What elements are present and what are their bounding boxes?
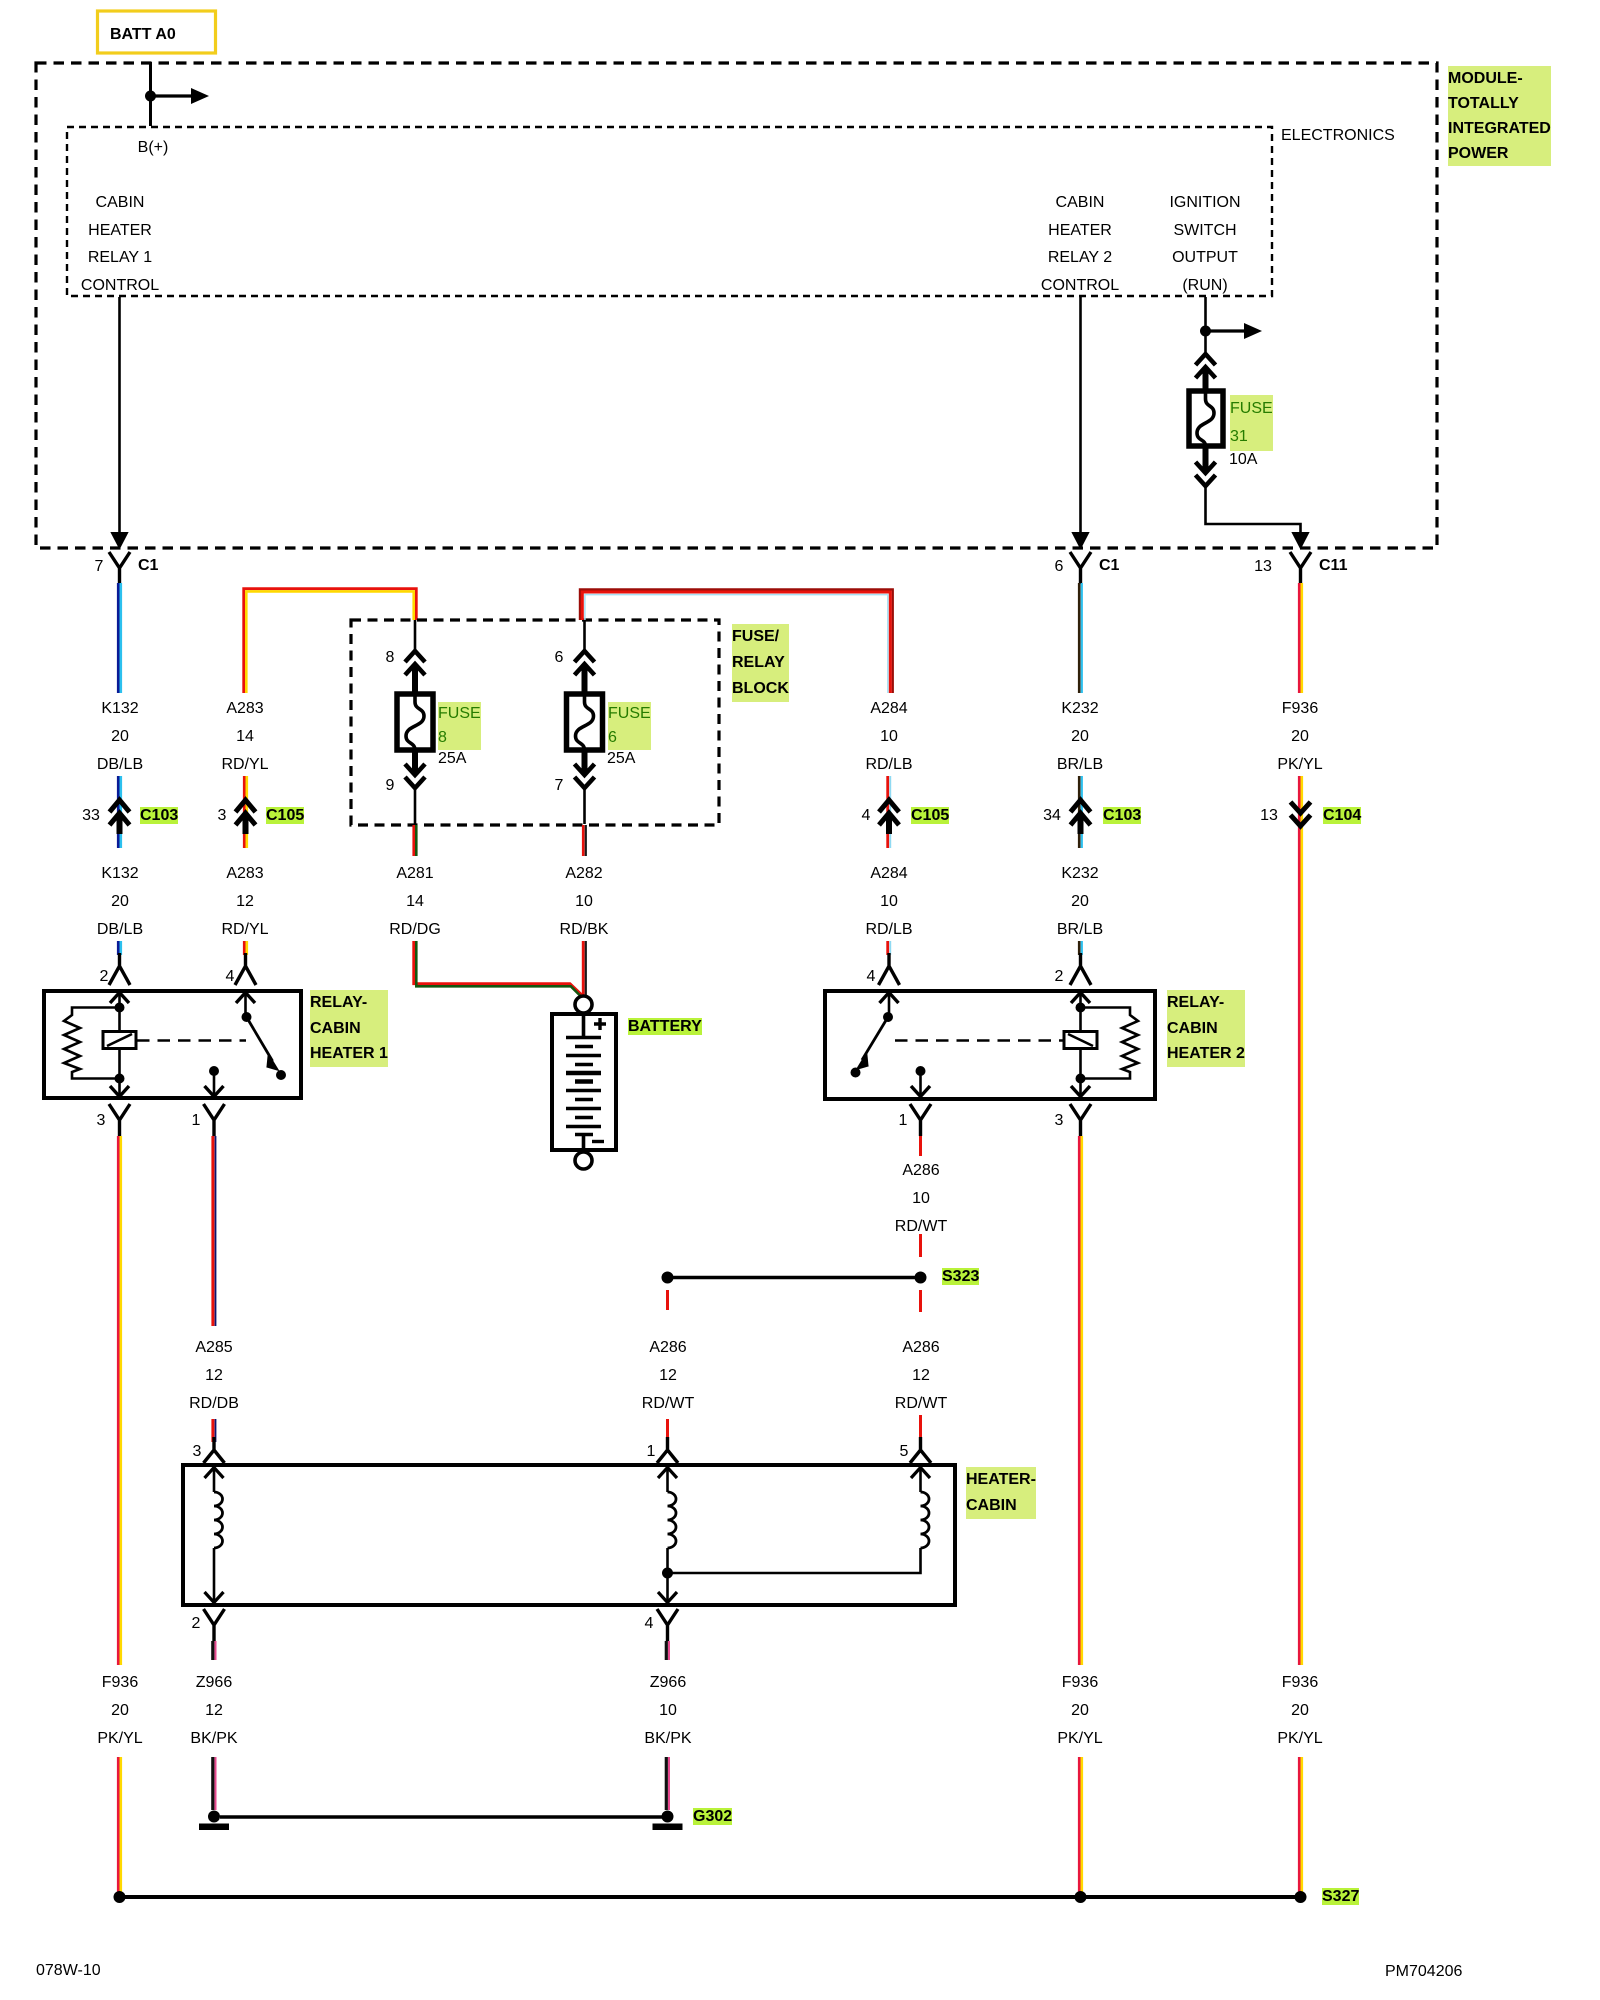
pin number 6 fuse xyxy=(555,649,564,667)
relay1 dashed actuation link xyxy=(137,1039,246,1042)
label RELAY-CABIN HEATER 2 xyxy=(1167,990,1245,1067)
pin number 9 fuse xyxy=(386,777,395,795)
label wire F936 20 PK/YL upper xyxy=(1277,695,1322,779)
label wire A281 14 RD/DG xyxy=(389,860,441,944)
splice name S323 xyxy=(942,1268,979,1286)
wire A286 RD/WT below S323 right branch xyxy=(919,1290,922,1312)
pin number 3 C105 xyxy=(218,807,227,825)
pin number 13 C104 xyxy=(1260,807,1278,825)
label wire K132 20 DB/LB lower xyxy=(97,860,143,944)
relay2 pin 1 node xyxy=(916,1066,926,1076)
pin number 3 relay2 below xyxy=(1055,1112,1064,1130)
pin number 3 heater xyxy=(193,1443,202,1461)
label 10A fuse 31 rating xyxy=(1229,451,1257,469)
relay1 coil branch node bottom xyxy=(115,1074,125,1084)
pin number 2 heater below xyxy=(192,1615,201,1633)
relay2 coil branch node bottom xyxy=(1076,1074,1086,1084)
connector heater pin 1 (fork) xyxy=(657,1437,678,1463)
connector C104 chevrons pointing down (pin 13) xyxy=(1291,802,1311,826)
pin number 4 relay2 xyxy=(867,968,876,986)
pin number 1 heater xyxy=(647,1443,656,1461)
connector heater pin 5 (fork) xyxy=(910,1437,931,1463)
wire A283 RD/YL from C1 area down (upper segment with corner to fuse block) xyxy=(244,589,417,693)
connector name C1 left xyxy=(138,557,158,575)
label FUSE/RELAY BLOCK xyxy=(732,624,789,702)
wire K132 DB/LB lower segment xyxy=(118,941,121,955)
wire A286 RD/WT below S323 left branch xyxy=(666,1290,669,1310)
pin number 4 relay1 xyxy=(226,968,235,986)
pin number 2 relay1 xyxy=(100,968,109,986)
connector relay2 pin 3 below (fork) xyxy=(1070,1104,1091,1136)
splice name S327 xyxy=(1322,1888,1359,1906)
connector relay2 pin 4 (fork) xyxy=(879,953,900,985)
splice S327 node middle xyxy=(1075,1891,1087,1903)
splice S327 node left xyxy=(114,1891,126,1903)
label 25A fuse 8 rating xyxy=(438,750,466,768)
label wire Z966 12 BK/PK xyxy=(190,1669,237,1753)
ground G302 right symbol xyxy=(653,1811,683,1831)
pin number 33 C103 xyxy=(82,807,100,825)
pin number 34 C103 xyxy=(1043,807,1061,825)
label wire K132 20 DB/LB upper xyxy=(97,695,143,779)
label wire F936 20 PK/YL bottom right xyxy=(1277,1669,1322,1753)
label B(+) xyxy=(138,139,169,157)
wire A282 RD/BK down to battery positive xyxy=(583,941,586,996)
connector relay1 pin 4 (fork) xyxy=(235,953,256,985)
relay U1 RELAY-CABIN HEATER 1 box xyxy=(44,991,301,1098)
pin chevron fuse 6 top xyxy=(575,651,595,694)
relay1 pin 2 entry arrow xyxy=(110,993,129,1009)
pin chevron fuse 31 bottom xyxy=(1196,446,1216,486)
relay1 switch contact node xyxy=(276,1070,286,1080)
pin chevron fuse 31 top xyxy=(1196,354,1216,391)
pin number 13 C11 xyxy=(1254,558,1272,576)
label wire Z966 10 BK/PK xyxy=(644,1669,691,1753)
relay1 switch pivot node xyxy=(242,1012,252,1022)
label wire A282 10 RD/BK xyxy=(560,860,609,944)
wire A284 RD/LB lower segment xyxy=(888,941,891,955)
label wire F936 20 PK/YL bottom left xyxy=(97,1669,142,1753)
relay1 switch blade xyxy=(247,1017,279,1070)
label sheet code PM704206 xyxy=(1385,1963,1462,1981)
connector relay1 pin 3 below (fork) xyxy=(109,1104,130,1136)
fuse 6 xyxy=(567,694,603,750)
wire splice S327 horizontal xyxy=(120,1895,1301,1899)
wire Z966 BK/PK left stub xyxy=(213,1641,216,1660)
label MODULE-TOTALLY INTEGRATED POWER xyxy=(1448,66,1551,166)
fuse 8 xyxy=(397,694,433,750)
heater pin 3 entry arrow and element xyxy=(205,1468,224,1603)
connector name C103 right xyxy=(1103,807,1141,825)
connector heater pin 3 (fork) xyxy=(204,1437,225,1463)
module boundary: TIPM outer dashed box xyxy=(36,63,1437,548)
wire K132 DB/LB upper segment xyxy=(118,583,121,693)
wire F936 PK/YL long segment down to S327 xyxy=(1299,848,1302,1665)
connector relay2 pin 2 (fork) xyxy=(1070,953,1091,985)
wire A281 RD/DG stub below fuse block xyxy=(414,825,417,856)
relay2 coil branch node top xyxy=(1076,1003,1086,1013)
label wire A283 12 RD/YL lower xyxy=(221,860,268,944)
wire K132 DB/LB at connector C103 xyxy=(118,776,121,848)
connector pin 6 C1 (fork) xyxy=(1070,552,1091,584)
pin chevron fuse 8 top xyxy=(405,651,425,694)
label cabin heater relay 2 control xyxy=(1041,189,1119,299)
wire fuse 31 output to pin 13 C11 xyxy=(1206,486,1309,548)
relay1 pin 3 exit arrow xyxy=(110,1079,129,1097)
relay2 switch pivot node xyxy=(883,1012,893,1022)
label wire A284 10 RD/LB upper xyxy=(865,695,912,779)
relay1 coil branch node top xyxy=(115,1003,125,1013)
relay2 switch blade xyxy=(857,1017,888,1069)
splice S327 node right xyxy=(1295,1891,1307,1903)
wire Z966 BK/PK left lower xyxy=(213,1757,216,1810)
wire A282 RD/BK stub below fuse block xyxy=(583,825,586,856)
splice S323 node left xyxy=(662,1272,674,1284)
pin number 4 heater below xyxy=(645,1615,654,1633)
relay U2 RELAY-CABIN HEATER 2 box xyxy=(825,991,1155,1099)
label FUSE 8 value xyxy=(438,702,481,750)
label FUSE 6 value xyxy=(608,702,651,750)
relay2 switch contact node xyxy=(851,1068,861,1078)
wire fuse 6 exit to A282 xyxy=(583,788,586,824)
heater pin 5 entry arrow and element xyxy=(668,1468,931,1574)
wire A285 RD/DB from relay1 pin 1 xyxy=(213,1136,216,1326)
connector pin 13 C11 (fork) xyxy=(1290,552,1311,584)
label FUSE 31 value xyxy=(1230,395,1273,451)
connector name C11 xyxy=(1319,557,1347,575)
arrow B(+) branch to right xyxy=(151,88,210,104)
pin number 1 relay2 below xyxy=(899,1112,908,1130)
wire splice S323 horizontal xyxy=(668,1276,921,1280)
connector relay1 pin 1 below (fork) xyxy=(204,1104,225,1136)
node B(+) junction xyxy=(145,91,156,102)
label cabin heater relay 1 control xyxy=(81,189,159,299)
connector relay1 pin 2 (fork) xyxy=(109,953,130,985)
connector C105 chevrons (pin 3) xyxy=(236,800,256,834)
pin chevron fuse 8 bottom (pin 9) xyxy=(405,750,425,788)
label wire A286 12 RD/WT left xyxy=(642,1334,694,1418)
label wire F936 20 PK/YL bottom middle xyxy=(1057,1669,1102,1753)
connector name C103 left xyxy=(140,807,178,825)
pin number 6 C1 xyxy=(1055,558,1064,576)
pin number 7 fuse xyxy=(555,777,564,795)
connector heater pin 2 below (fork) xyxy=(204,1609,225,1641)
wire Z966 BK/PK right lower xyxy=(666,1757,669,1810)
connector pin 7 C1 (fork) xyxy=(109,552,130,584)
relay2 dashed actuation link xyxy=(895,1039,1063,1042)
heater pin 1 entry arrow and element xyxy=(658,1468,677,1603)
wire K232 BR/LB at connector C103 xyxy=(1079,776,1082,848)
connector name C105 right xyxy=(911,807,949,825)
box BATT A0 (power feed) xyxy=(98,11,216,53)
pin number 1 relay1 below xyxy=(192,1112,201,1130)
label 25A fuse 6 rating xyxy=(607,750,635,768)
connector relay2 pin 1 below (fork) xyxy=(910,1104,931,1136)
ground name G302 xyxy=(693,1808,732,1826)
label HEATER-CABIN xyxy=(966,1467,1036,1519)
relay2 pin 3 exit arrow xyxy=(1071,1079,1090,1097)
connector C103 chevrons (pin 33) xyxy=(110,800,130,834)
wire fuse 6 entry (pin 6) with corner from C1 xyxy=(580,589,893,693)
wire fuse 8 exit to A281 xyxy=(414,788,417,824)
relay1 pin 1 node xyxy=(209,1066,219,1076)
relay2 pin 2 entry arrow xyxy=(1071,993,1090,1009)
wire A283 RD/YL at connector C105 xyxy=(244,776,247,848)
label BATT A0 xyxy=(110,26,176,44)
pin number 7 C1 xyxy=(95,558,104,576)
wire fuse 8 entry (pin 8) xyxy=(414,620,417,652)
connector name C105 left xyxy=(266,807,304,825)
arrow ignition run branch to right xyxy=(1206,323,1263,339)
wire ground G302 link xyxy=(220,1815,662,1819)
connector name C1 right xyxy=(1099,557,1119,575)
pin number 2 relay2 xyxy=(1055,968,1064,986)
splice S323 node right xyxy=(915,1272,927,1284)
relay2 resistor xyxy=(1081,1008,1139,1079)
connector name C104 xyxy=(1323,807,1361,825)
node ignition run branch junction xyxy=(1200,326,1211,337)
label wire A284 10 RD/LB lower xyxy=(865,860,912,944)
wire A283 RD/YL lower segment xyxy=(244,941,247,955)
label RELAY-CABIN HEATER 1 xyxy=(310,990,388,1067)
relay1 resistor xyxy=(64,1008,120,1079)
pin chevron fuse 6 bottom (pin 7) xyxy=(575,750,595,788)
pin number 8 fuse xyxy=(386,649,395,667)
relay1 pin 4 entry arrow xyxy=(236,993,255,1015)
wire cabin heater relay 1 control (pin 7 C1) xyxy=(112,297,127,548)
connector C103 chevrons (pin 34) xyxy=(1071,800,1091,834)
heater internal junction node xyxy=(662,1568,673,1579)
battery xyxy=(552,996,616,1169)
heater HEATER-CABIN box xyxy=(183,1465,955,1605)
wire F936 PK/YL from relay1 pin 3 down xyxy=(118,1136,121,1665)
wire A281 RD/DG down to battery positive xyxy=(414,941,584,999)
wire K232 BR/LB lower segment xyxy=(1079,941,1082,955)
relay2 coil (solenoid box with slash) xyxy=(1064,1008,1097,1079)
label ignition switch output run xyxy=(1169,189,1240,299)
wire K232 BR/LB upper segment xyxy=(1079,583,1082,693)
wire B(+) feed from BATT A0 xyxy=(149,62,152,126)
pin number 5 heater xyxy=(900,1443,909,1461)
wire A286 RD/WT from relay2 pin 1 xyxy=(919,1136,922,1156)
wire F936 PK/YL upper segment (C11 pin 13) xyxy=(1299,583,1302,693)
label wire A286 10 RD/WT xyxy=(895,1157,947,1241)
wire A284 RD/LB at connector C105 right xyxy=(888,776,891,848)
connector C105 chevrons (pin 4) xyxy=(879,800,899,834)
module boundary: electronics inner dashed box xyxy=(67,127,1272,296)
pin number 3 relay1 below xyxy=(97,1112,106,1130)
relay2 pin 1 exit arrow xyxy=(911,1071,930,1097)
fuse 31 xyxy=(1189,391,1223,446)
label ELECTRONICS xyxy=(1281,127,1395,145)
relay1 coil (solenoid box with slash) xyxy=(103,1008,136,1079)
wire ignition switch output (RUN) xyxy=(1204,297,1207,352)
relay1 pin 1 exit arrow xyxy=(205,1071,224,1097)
label sheet code 078W-10 xyxy=(36,1962,101,1980)
wire cabin heater relay 2 control (pin 6 C1) xyxy=(1073,297,1088,548)
pin number 4 C105 xyxy=(862,807,871,825)
wire F936 PK/YL from relay2 pin 3 down xyxy=(1079,1136,1082,1665)
fuse/relay block dashed box xyxy=(351,620,719,825)
label wire K232 20 BR/LB lower xyxy=(1057,860,1103,944)
label wire A285 12 RD/DB xyxy=(189,1334,239,1418)
wire F936 PK/YL at connector C104 xyxy=(1299,776,1302,848)
label wire A283 14 RD/YL upper xyxy=(221,695,268,779)
label BATTERY xyxy=(628,1018,702,1036)
wire Z966 BK/PK right stub xyxy=(666,1641,669,1660)
relay2 pin 4 entry arrow xyxy=(880,993,899,1015)
label wire K232 20 BR/LB upper xyxy=(1057,695,1103,779)
ground G302 left symbol xyxy=(199,1811,229,1831)
connector heater pin 4 below (fork) xyxy=(657,1609,678,1641)
label wire A286 12 RD/WT right xyxy=(895,1334,947,1418)
